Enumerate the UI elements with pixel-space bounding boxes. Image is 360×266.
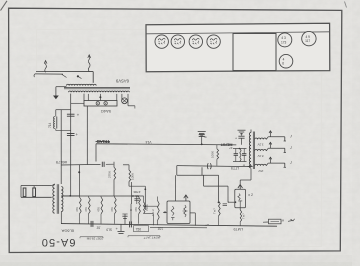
svg-text:MERIT: MERIT	[220, 143, 232, 147]
svg-text:Tm?: Tm?	[242, 213, 246, 219]
speaker connector pin 2	[33, 188, 36, 197]
wire ground bus bottom	[61, 224, 277, 227]
wire secondary drop d	[116, 94, 118, 101]
capacitor C7 to ground	[199, 135, 205, 146]
pen slash top-left corner	[1, 1, 8, 11]
label 5Y3GT (rotated)	[115, 79, 129, 84]
wire OT2 primary top	[250, 130, 252, 133]
transformer T1 primary winding	[67, 84, 97, 85]
svg-text:102: 102	[157, 226, 163, 230]
wire R1 top	[113, 162, 115, 168]
wire secondary drop b	[87, 94, 89, 101]
tube V2 box	[235, 189, 246, 208]
svg-text:x 2: x 2	[248, 193, 253, 197]
label winding 2 ohms	[257, 154, 263, 158]
label R3 (rotated)	[75, 207, 79, 212]
resistor R15	[218, 175, 221, 225]
resistor R5	[101, 196, 103, 224]
svg-text:Tm 2: Tm 2	[151, 209, 155, 216]
svg-text:27: 27	[229, 146, 233, 150]
title 6A-50 (rotated 180)	[41, 236, 76, 248]
transformer OT2 primary winding	[249, 133, 251, 169]
wire jack lead 3	[266, 163, 285, 166]
wire OT1 bottom lead	[60, 212, 62, 224]
transformer OT2 secondary winding 1	[255, 138, 267, 139]
speaker connector base	[21, 196, 52, 198]
wire V1 box out	[190, 213, 195, 226]
wire OT1 secondary junction	[61, 195, 79, 197]
capacitor C4 on bus	[91, 221, 93, 227]
svg-text:.02: .02	[96, 226, 101, 230]
label R value c (rotated)	[157, 226, 163, 230]
capacitor C5 on bus	[130, 221, 132, 227]
transformer OT2 secondary winding 2	[255, 149, 267, 150]
label R4 (rotated)	[84, 207, 88, 212]
label R14 on rail	[145, 140, 151, 144]
svg-text:6A-50: 6A-50	[41, 236, 76, 248]
tube V2 plate arrow	[238, 185, 243, 190]
capacitor C14 bias	[223, 200, 230, 205]
svg-text:5A4G: 5A4G	[101, 109, 111, 114]
wire AC line lower	[34, 74, 63, 77]
label choke (rotated vertical)	[48, 122, 52, 128]
wire V1 box in	[163, 211, 167, 213]
label 6SN7 (rotated)	[234, 227, 244, 231]
wire B+ rail	[96, 144, 236, 145]
svg-text:SL9: SL9	[106, 227, 112, 231]
label R8b (rotated)	[145, 204, 149, 211]
svg-text:47K: 47K	[96, 207, 100, 212]
svg-text:173: 173	[281, 40, 287, 44]
wire V2 grid	[228, 186, 236, 203]
wire choke bottom tie	[56, 129, 71, 131]
wire cluster bottom tie	[233, 161, 247, 163]
svg-text:+: +	[228, 200, 230, 204]
faint bleed-through inner rectangle	[37, 30, 322, 247]
tube V1 internal a	[171, 206, 174, 220]
label R12 (rotated)	[211, 151, 215, 158]
wire filter jog	[56, 110, 71, 117]
transformer T1 secondary winding	[69, 91, 130, 92]
transformer T1 core	[64, 88, 130, 89]
svg-text:8.4V: 8.4V	[257, 154, 263, 158]
tube socket circle 1 (panel)	[155, 35, 168, 48]
transformer OT1 secondary winding	[61, 187, 63, 212]
output jack arrow	[288, 219, 295, 222]
svg-text:+: +	[235, 137, 237, 141]
tube socket circle 6 (panel right)	[302, 31, 316, 45]
label R5 (rotated)	[96, 207, 100, 212]
svg-text:47K: 47K	[75, 207, 79, 212]
wire V2 plate	[240, 169, 251, 185]
wire AC line upper	[36, 71, 93, 73]
capacitor C9	[234, 149, 238, 162]
rectifier V5 filament loop box	[84, 101, 117, 107]
wire cathode rail	[177, 166, 253, 167]
wire box left exit	[71, 102, 84, 104]
speaker jack J2	[269, 142, 286, 152]
ground GND2	[198, 129, 206, 135]
speaker jack J3	[269, 157, 286, 167]
wire R2 top	[123, 165, 129, 170]
wire stage run	[61, 163, 100, 166]
label R2 (rotated)	[131, 172, 135, 180]
svg-text:117: 117	[305, 39, 310, 43]
svg-text:100K: 100K	[211, 151, 215, 158]
label 6L6GA bottom (rotated)	[61, 229, 74, 234]
ground arrow primary	[54, 96, 59, 99]
electrolytic C13	[122, 214, 127, 224]
speaker jack J1	[269, 131, 286, 141]
resistor R2	[129, 170, 131, 182]
svg-text:15V: 15V	[258, 169, 263, 173]
label R6 (rotated)	[110, 207, 114, 212]
tube V1 box	[167, 201, 190, 224]
label MERIT on rail (dark)	[220, 143, 232, 147]
label R16 (rotated)	[242, 213, 246, 219]
svg-text:LM79: LM79	[234, 227, 244, 231]
wire V1 grid drop	[174, 175, 176, 201]
capacitor C2 (filter)	[67, 132, 79, 137]
svg-text:LTT9: LTT9	[231, 166, 239, 170]
label w jack	[205, 218, 284, 227]
wire cathode branch	[78, 165, 80, 196]
label winding 3 ohms	[258, 169, 263, 173]
choke L1 winding	[54, 117, 57, 129]
wire V1 plate run	[129, 182, 145, 187]
label R9 (rotated)	[151, 209, 155, 216]
svg-text:2057 29:0M: 2057 29:0M	[86, 237, 103, 241]
label cluster mid (rotated)	[131, 190, 140, 198]
wire cluster top tie	[233, 148, 247, 150]
switch S1 blade	[62, 74, 67, 77]
wire filter cap branch	[70, 94, 72, 165]
capacitor C10	[242, 149, 246, 162]
tick mark top-right corner	[345, 2, 347, 8]
wire cap branch extend	[70, 165, 72, 196]
speaker connector J0 top line	[21, 185, 52, 187]
tube socket circle 3 (panel)	[189, 35, 202, 48]
speaker connector pin stem	[21, 186, 34, 198]
label jack 3	[290, 161, 293, 165]
resistor R7	[139, 196, 141, 224]
transformer OT2 core	[253, 132, 254, 170]
wire splitter output step	[177, 166, 228, 187]
svg-text:w?: w?	[205, 223, 209, 227]
rectifier socket circle a	[96, 102, 99, 105]
wire choke top link	[60, 110, 62, 117]
svg-text:750: 750	[136, 227, 142, 231]
panel speaker cutout rectangle	[233, 34, 276, 71]
annotation bracket 2	[128, 236, 160, 241]
label TRIAD (rotated, dark)	[96, 139, 111, 144]
svg-text:47K: 47K	[84, 207, 88, 212]
resistor R4	[89, 196, 91, 224]
wire V1 to coupling	[113, 180, 115, 197]
svg-text:470K: 470K	[132, 190, 140, 194]
capacitor C1 (filter)	[67, 113, 80, 118]
resistor R13	[240, 149, 241, 162]
label x2	[248, 193, 253, 197]
wire rectifier output drop	[86, 106, 88, 164]
wire to output jack	[263, 221, 269, 223]
label C value a (rotated)	[96, 226, 101, 230]
label R1 (rotated)	[107, 170, 111, 178]
wire V2 cathode	[239, 208, 241, 210]
label R15 (rotated)	[212, 208, 216, 214]
wire mid vertical a	[131, 182, 133, 204]
svg-text:6ASV9: 6ASV9	[115, 79, 129, 84]
svg-text:W74T JA?: W74T JA?	[145, 236, 160, 240]
resistor R12 screen	[217, 145, 219, 166]
label R7 (rotated)	[134, 207, 138, 212]
svg-text:6: 6	[282, 62, 284, 66]
svg-text:100K: 100K	[131, 172, 135, 180]
tube socket circle 5 (panel right)	[278, 33, 292, 47]
label jack 2	[290, 146, 293, 150]
svg-text:270K: 270K	[107, 170, 111, 178]
transformer OT1 core	[57, 184, 59, 214]
label R value b (rotated)	[106, 227, 112, 231]
resistor R9	[158, 197, 160, 226]
label C7	[204, 135, 207, 139]
chassis panel outline	[146, 23, 330, 71]
transformer OT1 primary winding	[53, 185, 55, 213]
wire w arrow on rail	[242, 163, 252, 167]
tube socket circle 2 (panel)	[171, 35, 184, 48]
label 5V4G (rotated)	[101, 109, 111, 114]
svg-text:+: +	[144, 236, 146, 240]
wire pilot return	[128, 94, 135, 109]
wire to pilot lamp	[121, 94, 123, 100]
ground GND3	[238, 130, 246, 134]
tube V1 plate arrow	[184, 195, 188, 201]
junction dot AC	[77, 75, 82, 78]
antenna lead 2	[88, 55, 91, 72]
wire mid link	[145, 205, 157, 207]
label boxed part number	[134, 226, 149, 232]
label 27K cluster	[229, 146, 251, 150]
output attenuator box	[269, 219, 282, 224]
tube V1 internal b	[183, 205, 188, 217]
wire secondary drop a	[83, 94, 85, 101]
wire primary left exit	[56, 87, 67, 96]
label 6SJ7 (rotated)	[231, 166, 239, 170]
wire mid vertical b	[144, 186, 146, 210]
label 6L6GA (rotated)	[55, 160, 67, 165]
resistor R6	[115, 196, 117, 224]
resistor R8b	[144, 196, 154, 225]
tube V2 internal	[238, 194, 242, 208]
capacitor C6 electrolytic	[116, 224, 125, 233]
antenna lead-in	[44, 61, 47, 73]
panel inner top line	[146, 32, 329, 34]
svg-text:47K: 47K	[134, 207, 138, 212]
label winding 1 ohms	[257, 143, 263, 147]
capacitor C11 on rail	[207, 163, 211, 169]
svg-text:700K: 700K	[145, 204, 149, 211]
resistor R16	[240, 210, 242, 226]
svg-text:47K: 47K	[110, 207, 114, 212]
svg-text:3.2V: 3.2V	[257, 143, 263, 147]
rectifier socket circle b	[104, 102, 107, 105]
wire jack lead 1	[266, 137, 285, 140]
capacitor C12 marks	[134, 197, 139, 205]
wire mid vertical c	[130, 204, 132, 225]
tube socket circle 4 (panel)	[207, 35, 220, 48]
capacitor C8 decouple	[235, 133, 245, 145]
wire B+ rail riser	[95, 144, 97, 162]
wire secondary drop c	[99, 94, 101, 101]
wire jack lead 2	[266, 148, 285, 151]
speaker connector pin 1	[23, 188, 26, 197]
wire long drop from T1	[60, 110, 62, 165]
svg-text:#6L79: #6L79	[55, 160, 67, 165]
tube socket circle 7 (panel right)	[279, 54, 293, 68]
resistor R3	[80, 196, 82, 224]
wire ground bus stub	[150, 226, 207, 229]
wire OT1 top lead	[52, 165, 62, 186]
svg-text:6L6GA: 6L6GA	[61, 229, 74, 234]
wire comb top bus	[62, 195, 144, 197]
svg-text:V14: V14	[145, 140, 151, 144]
pilot lamp DS1	[122, 98, 128, 104]
transformer OT2 secondary winding 3	[255, 164, 267, 165]
annotation bracket 1	[80, 237, 103, 241]
label jack 1	[290, 134, 293, 138]
svg-text:714: 714	[48, 122, 52, 128]
wire AC down to T1	[92, 72, 94, 83]
capacitor C3 coupling	[102, 162, 113, 167]
resistor R1	[114, 167, 116, 179]
svg-text:Tm?: Tm?	[212, 208, 216, 214]
